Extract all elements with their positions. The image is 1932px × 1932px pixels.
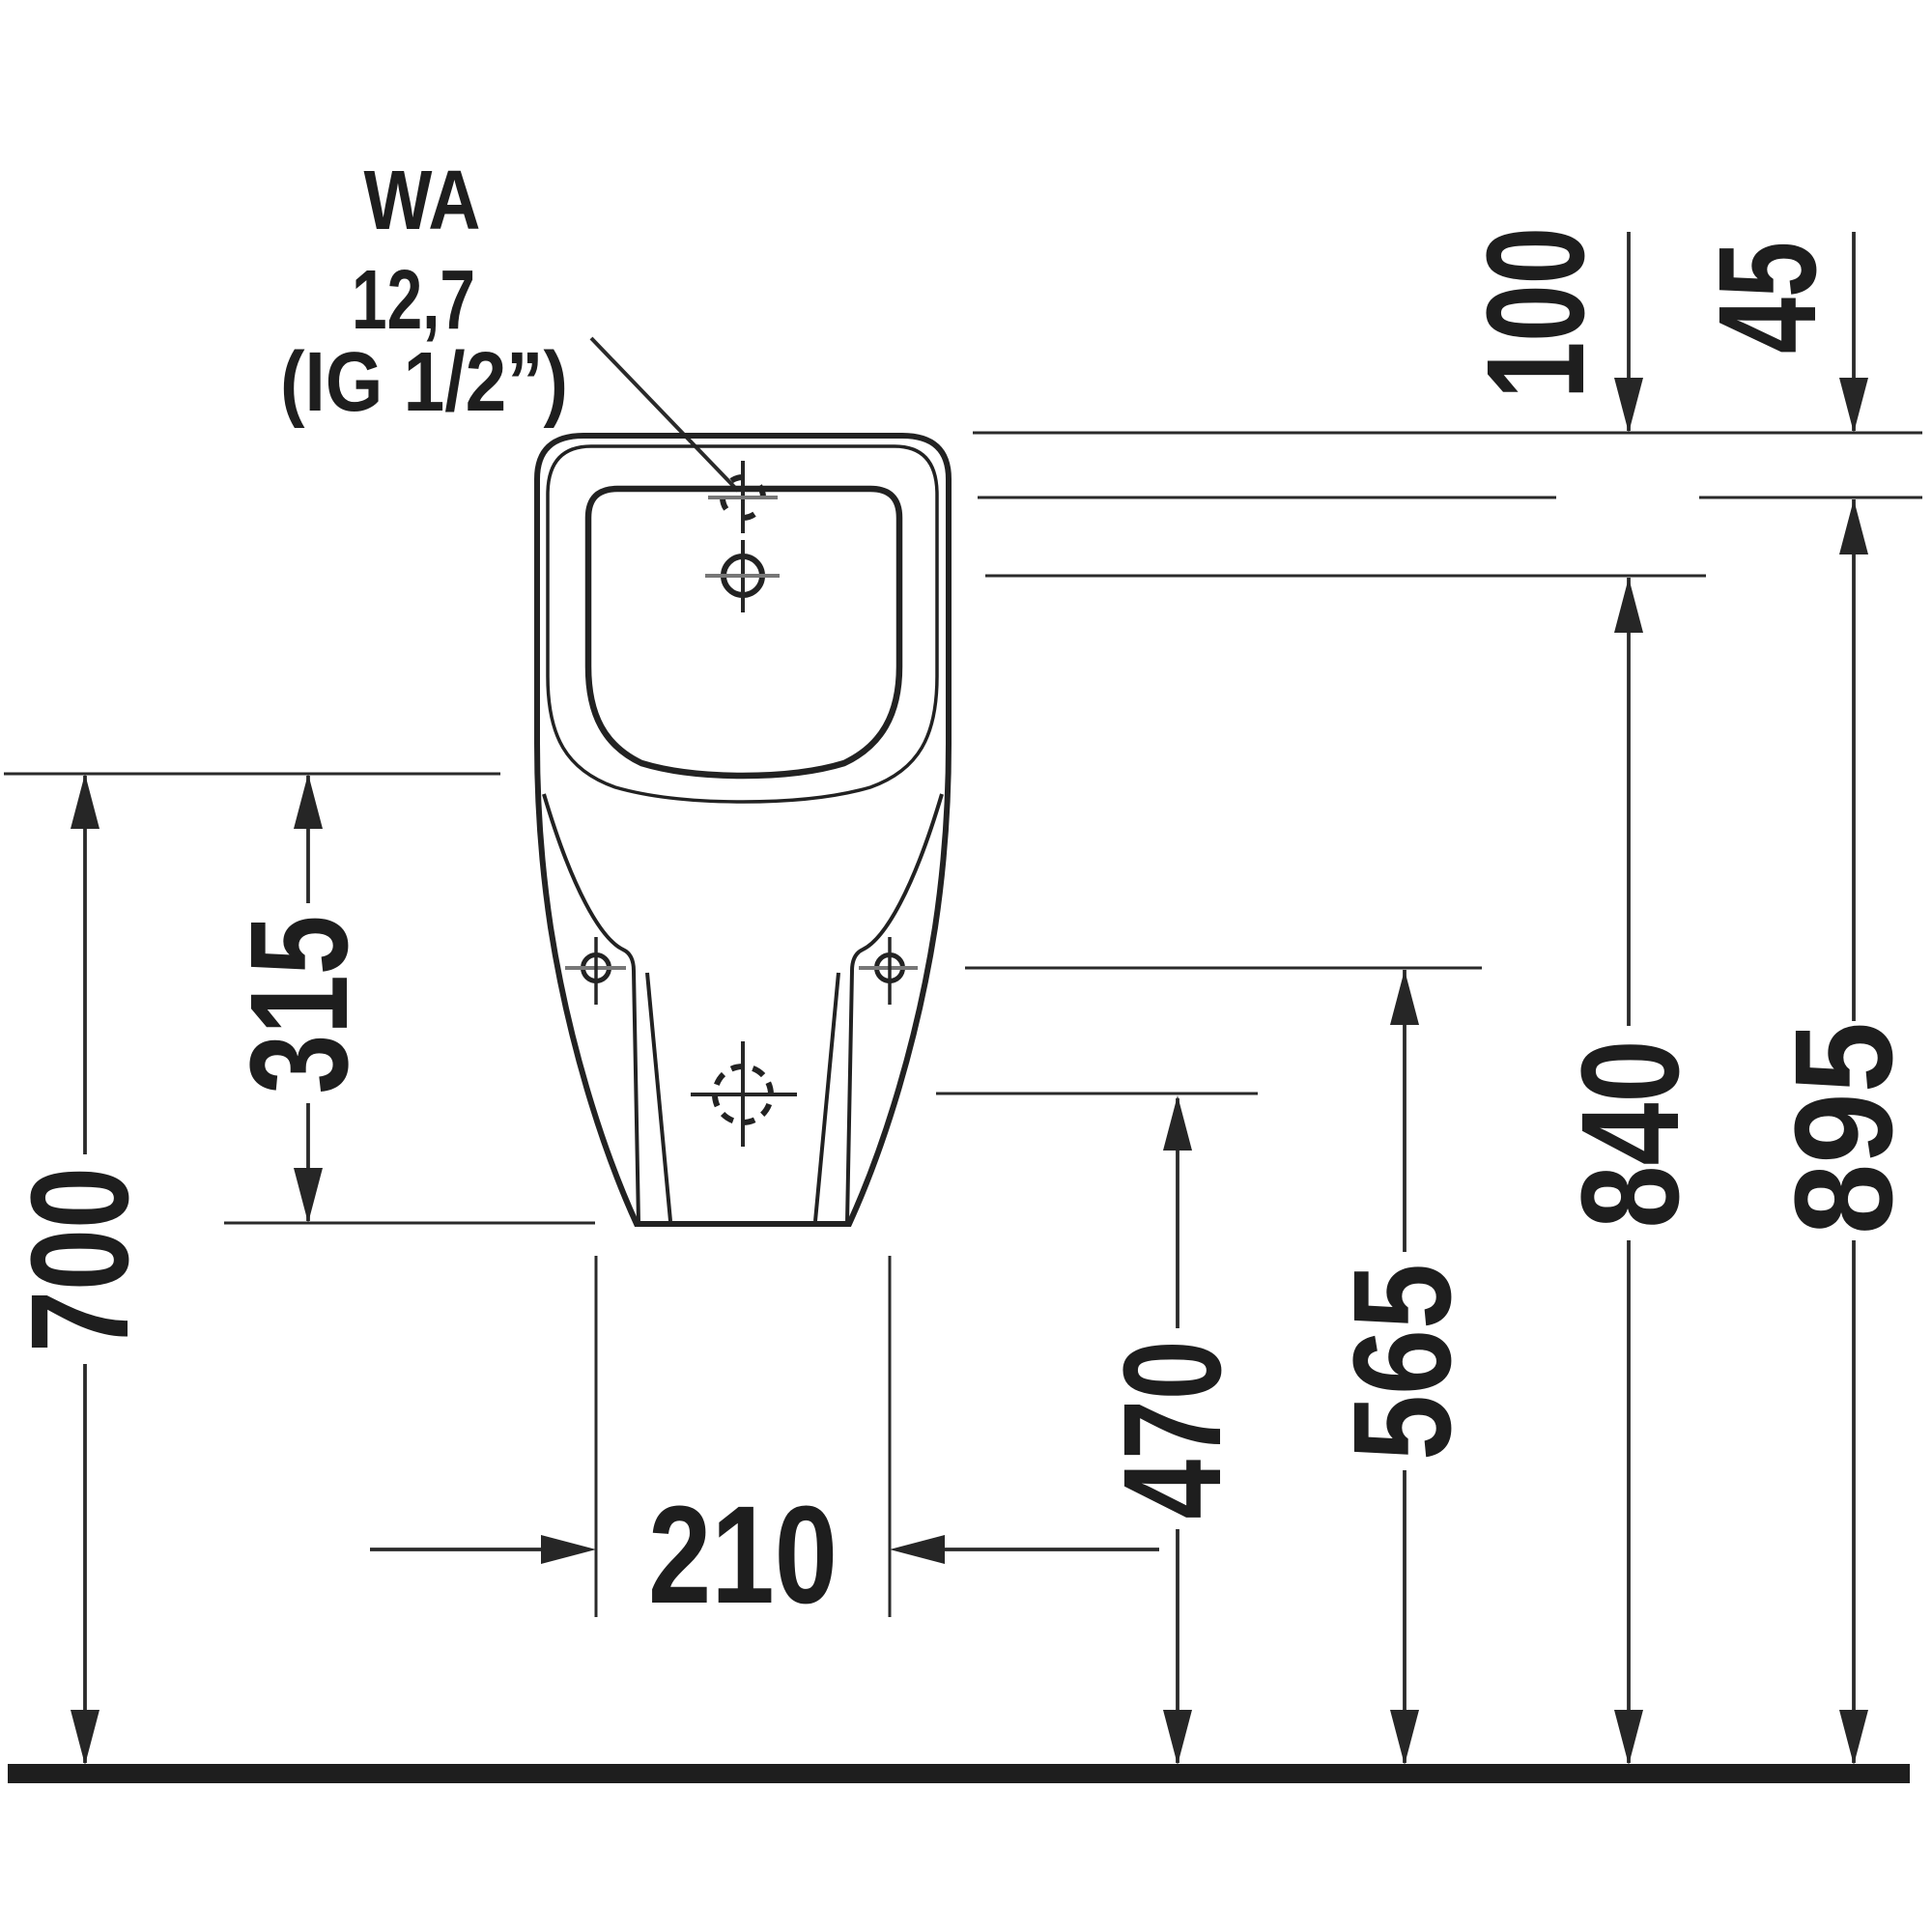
svg-text:WA: WA bbox=[364, 154, 481, 247]
svg-text:45: 45 bbox=[1690, 241, 1845, 354]
svg-text:700: 700 bbox=[2, 1167, 157, 1352]
svg-text:100: 100 bbox=[1458, 227, 1613, 399]
svg-text:470: 470 bbox=[1094, 1341, 1250, 1520]
svg-text:210: 210 bbox=[648, 1477, 838, 1633]
svg-text:12,7: 12,7 bbox=[352, 253, 475, 347]
svg-text:315: 315 bbox=[221, 916, 377, 1094]
svg-text:840: 840 bbox=[1552, 1040, 1708, 1229]
svg-text:895: 895 bbox=[1766, 1022, 1921, 1235]
svg-text:(IG 1/2”): (IG 1/2”) bbox=[280, 335, 568, 429]
svg-text:565: 565 bbox=[1324, 1264, 1480, 1461]
